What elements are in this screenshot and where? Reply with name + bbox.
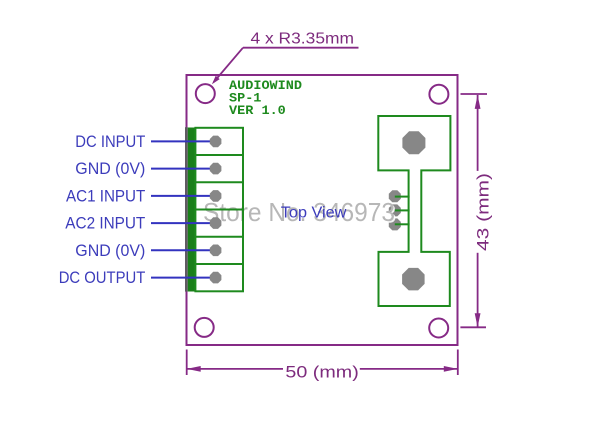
svg-text:VER 1.0: VER 1.0: [229, 103, 286, 118]
svg-text:GND (0V): GND (0V): [75, 160, 145, 178]
svg-text:50 (mm): 50 (mm): [285, 363, 358, 382]
svg-text:GND (0V): GND (0V): [75, 242, 145, 260]
svg-text:43 (mm): 43 (mm): [474, 173, 493, 251]
svg-text:Top View: Top View: [281, 205, 347, 222]
svg-text:4 x R3.35mm: 4 x R3.35mm: [251, 31, 355, 48]
svg-text:DC INPUT: DC INPUT: [75, 133, 145, 151]
svg-text:AC1 INPUT: AC1 INPUT: [66, 187, 145, 205]
svg-text:DC OUTPUT: DC OUTPUT: [59, 269, 146, 287]
svg-text:AC2 INPUT: AC2 INPUT: [65, 215, 145, 233]
